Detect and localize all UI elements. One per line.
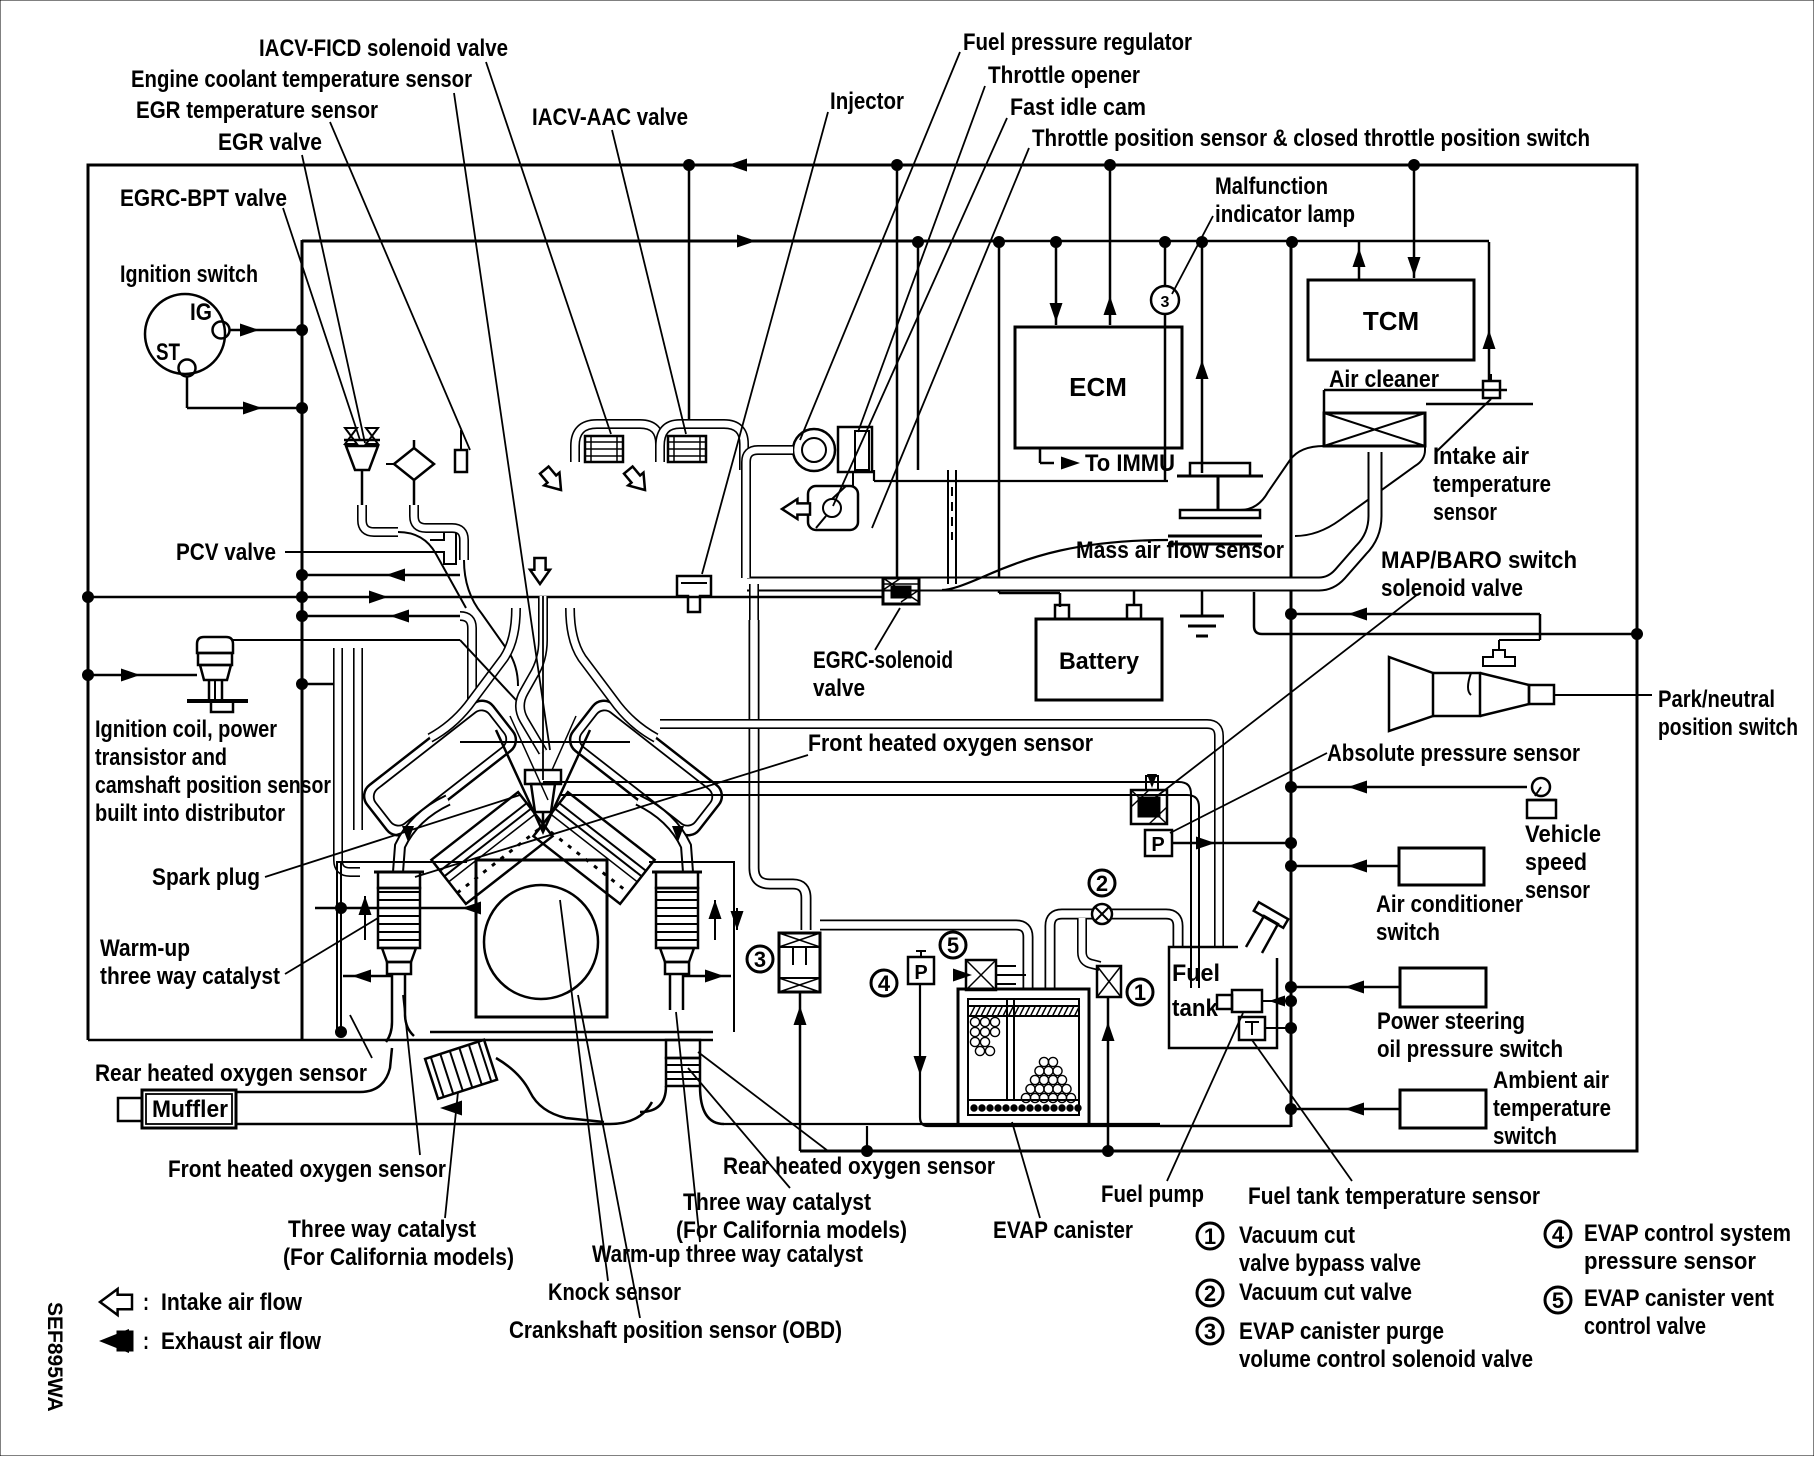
svg-text:Front heated oxygen sensor: Front heated oxygen sensor bbox=[168, 1156, 446, 1183]
svg-text:Intake air flow: Intake air flow bbox=[161, 1289, 302, 1316]
svg-text:switch: switch bbox=[1493, 1123, 1557, 1150]
wire thin line under canister bbox=[724, 1123, 1160, 1125]
svg-text:Fuel: Fuel bbox=[1172, 960, 1220, 987]
wire fuel pressure regulator leader bbox=[800, 52, 960, 440]
svg-text:4: 4 bbox=[878, 971, 891, 996]
svg-text:Exhaust air flow: Exhaust air flow bbox=[161, 1328, 321, 1355]
valve cover left bbox=[358, 695, 521, 841]
park/neutral position switch Q bbox=[1389, 657, 1433, 731]
wire crankshaft sensor leader bbox=[578, 995, 640, 1318]
intake runners right bbox=[570, 608, 656, 738]
wire P sensor to bottom bbox=[920, 984, 1160, 1126]
wire injector leader bbox=[702, 112, 828, 574]
legend circled 2 bbox=[1197, 1280, 1223, 1306]
wire IACV-AAC leader bbox=[612, 130, 686, 434]
muffler bbox=[118, 1098, 142, 1121]
EGR valve symbol bbox=[394, 448, 434, 480]
svg-text:Power steering: Power steering bbox=[1377, 1008, 1525, 1035]
svg-text:Fuel pressure regulator: Fuel pressure regulator bbox=[963, 29, 1192, 56]
svg-text:IACV-AAC valve: IACV-AAC valve bbox=[532, 104, 688, 131]
intake runners left bbox=[430, 608, 516, 738]
pipe purge solenoid to canister bbox=[820, 925, 1028, 989]
svg-text:Ignition switch: Ignition switch bbox=[120, 261, 258, 288]
air filter element bbox=[1324, 413, 1425, 446]
canister carbon left bbox=[0, 0, 1, 1]
svg-text:switch: switch bbox=[1376, 919, 1440, 946]
svg-text:Fuel tank temperature sensor: Fuel tank temperature sensor bbox=[1248, 1183, 1540, 1210]
circled 5 bbox=[940, 932, 966, 958]
MAP/BARO switch solenoid valve symbol bbox=[1131, 790, 1167, 824]
wire IAT leader bbox=[1436, 399, 1491, 452]
svg-text:volume control solenoid valve: volume control solenoid valve bbox=[1239, 1346, 1533, 1373]
wire knock sensor leader bbox=[560, 900, 608, 1281]
wire right bus x=1291 bbox=[1290, 242, 1293, 1127]
wire stub y=684 bbox=[302, 683, 340, 686]
wire EGRC feed y=597 bbox=[88, 596, 883, 599]
right catalyst lower column bbox=[666, 1040, 700, 1058]
wire line to border y=634 bbox=[1254, 592, 1637, 634]
wire outer border bbox=[88, 165, 1637, 1151]
exhaust elbow left bbox=[398, 800, 448, 872]
fuel tank temperature sensor bbox=[1239, 1017, 1265, 1040]
wire park/neutral line bbox=[1291, 613, 1540, 616]
svg-text:Absolute pressure sensor: Absolute pressure sensor bbox=[1327, 740, 1580, 767]
EGRC-solenoid valve symbol bbox=[883, 578, 919, 604]
wire vertical x=1202 MAF signal bbox=[1201, 242, 1204, 473]
svg-text:oil pressure switch: oil pressure switch bbox=[1377, 1036, 1563, 1063]
exhaust elbow right bbox=[638, 800, 688, 872]
canister bottom dotted row bbox=[968, 1099, 1079, 1101]
intake duct curves bbox=[1240, 446, 1324, 510]
wire battery to ground bbox=[1133, 590, 1136, 605]
cylinder bank right bbox=[533, 792, 654, 904]
svg-text:three way catalyst: three way catalyst bbox=[100, 963, 280, 990]
wire vertical x=1414 into TCM bbox=[1413, 165, 1416, 278]
engine coolant temperature sensor symbol bbox=[455, 450, 467, 472]
wire rear O2 right leader bbox=[698, 1052, 828, 1151]
pipe bypass loop bbox=[1082, 918, 1100, 966]
wire vertical x=918 bbox=[917, 242, 920, 470]
warm-up three way catalyst right bbox=[652, 871, 702, 874]
TCM U2 bbox=[1308, 280, 1474, 360]
svg-text::: : bbox=[143, 1328, 149, 1355]
wire MAP/BARO leader bbox=[1152, 594, 1418, 800]
pipe left catalyst down bbox=[386, 1000, 392, 1042]
wire AC switch line bbox=[1291, 865, 1399, 868]
svg-text:speed: speed bbox=[1525, 849, 1587, 876]
wire bottom engine-bay line bbox=[88, 1039, 713, 1042]
warm-up three way catalyst left bbox=[374, 871, 424, 874]
engine bottom line bbox=[430, 1031, 713, 1034]
svg-text:Knock sensor: Knock sensor bbox=[548, 1279, 681, 1306]
wire fuel pump feed line bbox=[1262, 1000, 1291, 1002]
canister divider bbox=[1006, 999, 1008, 1100]
svg-text:1: 1 bbox=[1134, 980, 1146, 1005]
svg-text:camshaft position sensor: camshaft position sensor bbox=[95, 772, 331, 799]
svg-text:EGR valve: EGR valve bbox=[218, 129, 322, 156]
svg-text:EGRC-BPT valve: EGRC-BPT valve bbox=[120, 185, 287, 212]
wire CA catalyst left leader bbox=[445, 1092, 458, 1218]
wire top bus y=165 junctions bbox=[684, 160, 695, 171]
svg-text:EVAP canister vent: EVAP canister vent bbox=[1584, 1285, 1774, 1312]
svg-text:valve: valve bbox=[813, 675, 865, 702]
svg-text:EGRC-solenoid: EGRC-solenoid bbox=[813, 647, 953, 674]
legend circled 1 bbox=[1197, 1223, 1223, 1249]
distributor / ignition coil bbox=[197, 637, 233, 653]
fast idle cam unit bbox=[808, 486, 858, 530]
pipe fuel lines engine to tank bbox=[660, 724, 1219, 947]
pipe right catalyst down bbox=[640, 1086, 666, 1112]
wire rear O2 left leader bbox=[350, 1015, 372, 1058]
cylinder bank left bbox=[431, 792, 552, 904]
svg-text:EVAP canister: EVAP canister bbox=[993, 1217, 1133, 1244]
pipe heater hoses left of engine bbox=[460, 616, 472, 700]
svg-text:Muffler: Muffler bbox=[152, 1096, 228, 1123]
svg-text:ECM: ECM bbox=[1069, 372, 1127, 402]
circled 2 bbox=[1089, 870, 1115, 896]
svg-text:Vacuum cut valve: Vacuum cut valve bbox=[1239, 1279, 1412, 1306]
wire absolute pressure sensor leader bbox=[1170, 753, 1327, 833]
svg-text:Injector: Injector bbox=[830, 88, 904, 115]
svg-text:indicator lamp: indicator lamp bbox=[1215, 201, 1355, 228]
absolute pressure sensor P box bbox=[1145, 830, 1172, 856]
circled 4 bbox=[871, 970, 897, 996]
spark plug wires left bbox=[460, 640, 516, 700]
wire vertical x=1110 ECM to top bus bbox=[1109, 165, 1112, 325]
intake duct throttle to MAF bbox=[874, 480, 1168, 482]
pipe catalyst to lower line bbox=[496, 1058, 604, 1122]
EVAP canister purge volume control solenoid valve bbox=[779, 933, 820, 992]
wire vertical x=897 down to throttle area bbox=[896, 165, 899, 578]
wire distributor plug wire bbox=[233, 639, 460, 641]
wire warm-up catalyst leader bbox=[285, 918, 378, 974]
wire distributor feed bbox=[88, 674, 197, 677]
svg-text:Three way catalyst: Three way catalyst bbox=[683, 1189, 871, 1216]
svg-text:temperature: temperature bbox=[1433, 471, 1551, 498]
svg-text:Vehicle: Vehicle bbox=[1525, 821, 1601, 848]
svg-text:position switch: position switch bbox=[1658, 714, 1798, 741]
intake air temperature sensor bbox=[1483, 381, 1500, 398]
wire x=1489 intake air temp sensor line bbox=[1488, 242, 1491, 382]
wire EVAP canister leader bbox=[1012, 1122, 1040, 1218]
air conditioner switch box bbox=[1399, 848, 1484, 885]
wire sensor lines mid bbox=[543, 781, 1179, 783]
wire park/neutral leader bbox=[1554, 694, 1652, 696]
pipe EGR manifold runs bbox=[398, 532, 466, 608]
wire fuel tank temp sensor leader bbox=[1252, 1040, 1352, 1181]
wire IG to bus bbox=[230, 329, 302, 332]
valve cover right bbox=[564, 695, 727, 841]
wire purge solenoid to bottom bbox=[799, 992, 802, 1151]
svg-text:3: 3 bbox=[1204, 1319, 1216, 1344]
crankcase circle bbox=[484, 885, 598, 999]
svg-text:EVAP control system: EVAP control system bbox=[1584, 1220, 1791, 1247]
svg-text:EVAP canister purge: EVAP canister purge bbox=[1239, 1318, 1444, 1345]
svg-text:P: P bbox=[1151, 834, 1164, 856]
legend exhaust air flow bbox=[99, 1329, 129, 1353]
wire EGR valve leader bbox=[302, 155, 365, 443]
wire vertical x=1056 into ECM bbox=[1055, 242, 1058, 325]
svg-text:pressure sensor: pressure sensor bbox=[1584, 1248, 1756, 1275]
engine block bbox=[476, 860, 607, 1017]
svg-text:solenoid valve: solenoid valve bbox=[1381, 575, 1523, 602]
svg-text:Throttle position sensor & clo: Throttle position sensor & closed thrott… bbox=[1032, 125, 1590, 152]
svg-text:5: 5 bbox=[1552, 1288, 1564, 1313]
three way catalyst california horizontal bbox=[425, 1040, 497, 1099]
svg-text:2: 2 bbox=[1204, 1281, 1216, 1306]
wire warm-up catalyst right leader bbox=[676, 1012, 700, 1242]
power steering oil pressure switch box bbox=[1400, 968, 1486, 1007]
vehicle speed sensor bbox=[1532, 778, 1550, 796]
wire pcv line bbox=[285, 551, 430, 553]
battery B1 bbox=[1036, 619, 1162, 700]
ignition switch SW1 bbox=[145, 294, 225, 374]
svg-text:Mass air flow sensor: Mass air flow sensor bbox=[1076, 537, 1284, 564]
vacuum cut valve symbol bbox=[1092, 904, 1112, 924]
EVAP control system pressure sensor P bbox=[908, 957, 934, 984]
svg-text::: : bbox=[143, 1289, 149, 1316]
svg-text:Warm-up: Warm-up bbox=[100, 935, 190, 962]
wire EGRC-BPT leader bbox=[283, 208, 360, 440]
circled 1 bbox=[1127, 979, 1153, 1005]
svg-text:P: P bbox=[914, 962, 927, 984]
catalyst enclosure left bbox=[337, 862, 467, 1032]
svg-text:sensor: sensor bbox=[1525, 877, 1590, 904]
wire engine-bay left bus bbox=[301, 240, 304, 1040]
svg-text:valve bypass valve: valve bypass valve bbox=[1239, 1250, 1421, 1277]
IACV-FICD solenoid valve symbol bbox=[585, 436, 623, 462]
svg-text:EGR temperature sensor: EGR temperature sensor bbox=[136, 97, 378, 124]
wire IACV-FICD leader bbox=[486, 62, 611, 434]
pipe purge line down to EVAP bbox=[754, 620, 806, 930]
svg-text:3: 3 bbox=[1161, 294, 1170, 311]
injector symbol bbox=[677, 576, 711, 612]
svg-text:IACV-FICD solenoid valve: IACV-FICD solenoid valve bbox=[259, 35, 508, 62]
intake pipe to throttle bbox=[747, 452, 1375, 584]
svg-text:Battery: Battery bbox=[1059, 648, 1140, 675]
svg-text:3: 3 bbox=[754, 947, 766, 972]
svg-text:Ambient air: Ambient air bbox=[1493, 1067, 1609, 1094]
svg-text:Crankshaft position sensor (OB: Crankshaft position sensor (OBD) bbox=[509, 1317, 842, 1344]
svg-text:sensor: sensor bbox=[1433, 499, 1497, 526]
svg-text:tank: tank bbox=[1172, 995, 1219, 1022]
vacuum cut valve bypass valve symbol bbox=[1097, 966, 1121, 997]
svg-text:transistor and: transistor and bbox=[95, 744, 227, 771]
PCV valve symbol bbox=[430, 528, 456, 564]
wire vertical x=1359 TCM up bbox=[1358, 242, 1361, 280]
EVAP canister vent control valve bbox=[966, 960, 996, 990]
wire spark plug leader bbox=[265, 795, 520, 877]
wire vertical from top bus x=689 bbox=[688, 165, 691, 420]
wire front O2 left leader bbox=[403, 995, 420, 1155]
wire throttle opener leader bbox=[858, 86, 985, 432]
svg-text:(For California models): (For California models) bbox=[676, 1217, 907, 1244]
legend circled 3 bbox=[1197, 1318, 1223, 1344]
wire power steering line bbox=[1291, 986, 1400, 989]
pipe FPR hose verticals bbox=[947, 470, 949, 584]
svg-text:Vacuum cut: Vacuum cut bbox=[1239, 1222, 1355, 1249]
catalyst enclosure right bbox=[649, 862, 734, 1032]
ambient air temperature switch box bbox=[1400, 1090, 1486, 1128]
fuel tank bbox=[1169, 947, 1277, 1048]
wire o2 sensor stubs bbox=[343, 975, 392, 978]
wire vertical x=999 to battery bbox=[998, 242, 1001, 593]
wire VSS line bbox=[1291, 786, 1527, 789]
EGRC-BPT valve symbol bbox=[344, 439, 380, 442]
svg-text:1: 1 bbox=[1204, 1224, 1216, 1249]
wire bypass valve to bottom bbox=[1107, 997, 1110, 1151]
svg-text:Throttle opener: Throttle opener bbox=[988, 62, 1140, 89]
wire CA catalyst right leader bbox=[688, 1068, 790, 1188]
ground bbox=[1180, 615, 1224, 618]
wire abs pressure line to bus bbox=[1172, 842, 1291, 845]
svg-text:4: 4 bbox=[1552, 1222, 1565, 1247]
pipe AAC loop bbox=[660, 424, 744, 470]
svg-text:Three way catalyst: Three way catalyst bbox=[288, 1216, 476, 1243]
svg-text:To IMMU: To IMMU bbox=[1085, 450, 1175, 477]
white arrow throttle bbox=[782, 499, 810, 519]
pipe throttle body connect bbox=[746, 450, 793, 470]
svg-text:Park/neutral: Park/neutral bbox=[1658, 686, 1775, 713]
engine bank shading bbox=[457, 825, 544, 893]
pipe canister vacuum line bbox=[1050, 914, 1178, 989]
svg-text:Air conditioner: Air conditioner bbox=[1376, 891, 1523, 918]
engine center line bbox=[542, 596, 544, 780]
wire ambient switch line bbox=[1291, 1108, 1400, 1111]
wire stub y=616 bbox=[302, 615, 460, 618]
svg-text:SEF895WA: SEF895WA bbox=[43, 1302, 66, 1412]
wire fuel pump leader bbox=[1167, 1013, 1243, 1181]
fuel filler pipe bbox=[1246, 916, 1278, 953]
pipe plenum down connections bbox=[741, 470, 751, 578]
wire To IMMU bbox=[1039, 448, 1042, 463]
engine intake plenum center runner bbox=[520, 596, 543, 752]
EVAP canister bbox=[958, 989, 1089, 1125]
wire second bus y=242 bbox=[999, 240, 1489, 243]
svg-text:5: 5 bbox=[947, 933, 959, 958]
wire stub y=575 bbox=[302, 574, 460, 577]
throttle opener box bbox=[838, 427, 872, 472]
svg-text:2: 2 bbox=[1096, 871, 1108, 896]
wire exhaust cross line bbox=[315, 907, 476, 910]
wire EGRC solenoid leader bbox=[875, 608, 900, 650]
svg-text:Warm-up three way catalyst: Warm-up three way catalyst bbox=[592, 1241, 863, 1268]
svg-text:Intake air: Intake air bbox=[1433, 443, 1529, 470]
IACV-AAC solenoid valve symbol bbox=[668, 436, 706, 462]
throttle opener diaphragm (fuel pressure regulator) bbox=[793, 429, 835, 471]
wire throttle position sensor leader bbox=[872, 148, 1029, 528]
legend intake air flow bbox=[100, 1289, 132, 1315]
injector fuel rail lines bbox=[460, 741, 630, 743]
ECM U1 bbox=[1015, 327, 1182, 448]
svg-text:temperature: temperature bbox=[1493, 1095, 1611, 1122]
spark plug center bbox=[525, 770, 561, 784]
svg-text:Fuel pump: Fuel pump bbox=[1101, 1181, 1204, 1208]
malfunction indicator lamp bbox=[1164, 242, 1167, 286]
air cleaner housing bbox=[1324, 389, 1507, 392]
pipe FICD loop bbox=[575, 424, 660, 462]
svg-text:Fast idle cam: Fast idle cam bbox=[1010, 94, 1146, 121]
svg-text:Spark plug: Spark plug bbox=[152, 864, 260, 891]
svg-text:TCM: TCM bbox=[1363, 306, 1419, 336]
svg-text:Rear heated oxygen sensor: Rear heated oxygen sensor bbox=[95, 1060, 367, 1087]
svg-text:ST: ST bbox=[156, 339, 180, 366]
wire ST to bus bbox=[186, 376, 189, 408]
svg-text:built into distributor: built into distributor bbox=[95, 800, 285, 827]
svg-text:(For California models): (For California models) bbox=[283, 1244, 514, 1271]
svg-text:Ignition coil, power: Ignition coil, power bbox=[95, 716, 277, 743]
exhaust pipe upper bbox=[236, 1048, 392, 1092]
legend circled 4 bbox=[1545, 1221, 1571, 1247]
wire fast idle cam leader bbox=[833, 118, 1007, 506]
wire engine-bay top bus bbox=[302, 240, 999, 243]
canister hatched strip bbox=[970, 1006, 1080, 1016]
svg-text:Rear heated oxygen sensor: Rear heated oxygen sensor bbox=[723, 1153, 995, 1180]
svg-text:Engine coolant temperature sen: Engine coolant temperature sensor bbox=[131, 66, 472, 93]
svg-text:IG: IG bbox=[190, 299, 212, 326]
wire malfunction lamp leader bbox=[1172, 216, 1213, 294]
mass air flow sensor bbox=[1177, 475, 1263, 478]
svg-text:Front heated oxygen sensor: Front heated oxygen sensor bbox=[808, 730, 1093, 757]
circled 3 bbox=[747, 946, 773, 972]
svg-text:MAP/BARO switch: MAP/BARO switch bbox=[1381, 547, 1577, 574]
svg-text:control valve: control valve bbox=[1584, 1313, 1706, 1340]
wire EGR temp sensor leader bbox=[330, 122, 470, 450]
svg-text:Malfunction: Malfunction bbox=[1215, 173, 1328, 200]
intake flow arrows top bbox=[537, 464, 569, 497]
wire ECT sensor leader bbox=[454, 93, 550, 750]
fuel pump bbox=[1232, 990, 1262, 1012]
exhaust arrow bbox=[440, 1101, 462, 1116]
wire front heated oxygen sensor label top bbox=[415, 755, 808, 877]
wire bottom line y=1151 bbox=[862, 1146, 873, 1157]
pipe EGR connections bbox=[362, 505, 398, 532]
svg-text:PCV valve: PCV valve bbox=[176, 539, 276, 566]
legend circled 5 bbox=[1545, 1287, 1571, 1313]
engine V crevice bbox=[496, 730, 590, 832]
